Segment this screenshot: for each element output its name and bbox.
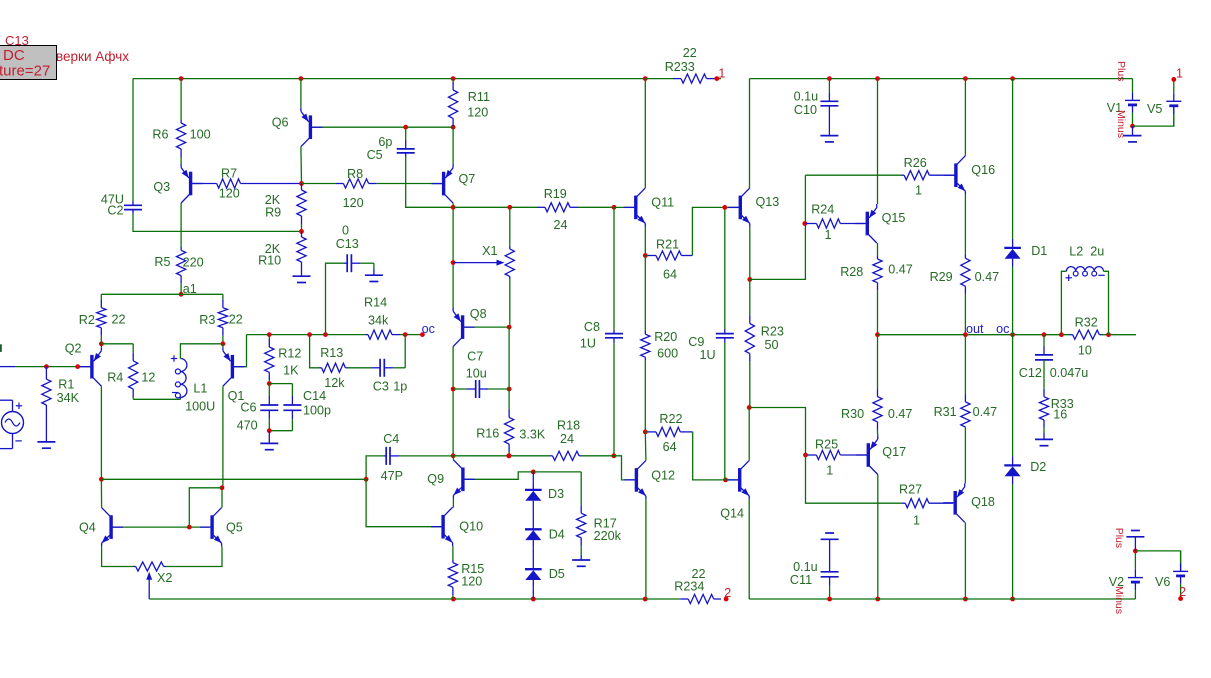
svg-text:Q3: Q3 [153, 180, 170, 194]
svg-text:2: 2 [1179, 585, 1186, 599]
svg-text:R16: R16 [476, 427, 499, 441]
svg-text:220k: 220k [594, 529, 622, 543]
svg-text:2: 2 [724, 586, 731, 600]
svg-text:R23: R23 [761, 324, 784, 338]
svg-text:R6: R6 [152, 127, 168, 141]
svg-text:ture=27: ture=27 [0, 63, 50, 80]
svg-text:C12: C12 [1019, 366, 1042, 380]
svg-text:Q5: Q5 [226, 521, 243, 535]
svg-text:1U: 1U [580, 337, 596, 351]
svg-text:C9: C9 [688, 335, 704, 349]
svg-text:22: 22 [683, 46, 697, 60]
svg-text:V6: V6 [1155, 575, 1170, 589]
svg-text:0.47: 0.47 [975, 270, 1000, 284]
svg-text:Q11: Q11 [651, 196, 674, 210]
svg-text:Q4: Q4 [79, 521, 96, 535]
svg-text:D2: D2 [1030, 460, 1046, 474]
svg-text:R13: R13 [320, 346, 343, 360]
svg-text:Q16: Q16 [971, 163, 995, 177]
svg-text:64: 64 [663, 267, 677, 281]
svg-text:R28: R28 [840, 265, 863, 279]
svg-text:34K: 34K [57, 391, 80, 405]
svg-text:Q6: Q6 [272, 116, 289, 130]
svg-text:24: 24 [560, 432, 574, 446]
svg-text:Minus: Minus [1115, 110, 1127, 138]
svg-text:X2: X2 [157, 571, 172, 585]
svg-text:1: 1 [825, 228, 832, 242]
svg-text:220: 220 [183, 256, 204, 270]
svg-text:50: 50 [765, 338, 779, 352]
svg-text:D4: D4 [549, 528, 565, 542]
svg-text:16: 16 [1053, 407, 1067, 421]
svg-text:C5: C5 [367, 148, 383, 162]
svg-text:12: 12 [141, 370, 155, 384]
svg-text:R22: R22 [659, 412, 682, 426]
svg-text:L1: L1 [193, 382, 207, 396]
svg-text:Q10: Q10 [459, 519, 483, 533]
svg-text:R9: R9 [265, 206, 281, 220]
svg-text:C11: C11 [790, 573, 812, 587]
svg-text:R2: R2 [79, 313, 95, 327]
svg-text:600: 600 [657, 347, 678, 361]
svg-text:0.47: 0.47 [888, 263, 913, 277]
svg-text:22: 22 [229, 313, 243, 327]
svg-text:R14: R14 [364, 296, 387, 310]
svg-text:R12: R12 [278, 347, 301, 361]
svg-text:R4: R4 [107, 370, 123, 384]
svg-text:1p: 1p [393, 379, 407, 393]
svg-text:0.047u: 0.047u [1050, 366, 1089, 380]
svg-text:C6: C6 [240, 400, 256, 414]
svg-text:1: 1 [913, 514, 920, 528]
svg-text:10u: 10u [466, 367, 487, 381]
svg-text:1: 1 [826, 464, 833, 478]
svg-text:R233: R233 [665, 60, 695, 74]
svg-text:L2 2u: L2 2u [1069, 245, 1104, 259]
svg-text:R24: R24 [811, 203, 834, 217]
svg-text:R1: R1 [58, 377, 74, 391]
svg-text:47P: 47P [381, 469, 403, 483]
svg-text:V5: V5 [1147, 102, 1162, 116]
svg-text:1K: 1K [283, 363, 299, 377]
svg-text:24: 24 [554, 218, 568, 232]
svg-text:120: 120 [461, 574, 482, 588]
svg-text:C2: C2 [107, 204, 123, 218]
svg-text:100U: 100U [185, 399, 215, 413]
svg-text:Q2: Q2 [65, 342, 82, 356]
svg-text:R18: R18 [557, 419, 580, 433]
svg-text:6p: 6p [378, 135, 392, 149]
svg-text:D3: D3 [548, 487, 564, 501]
svg-text:oc: oc [422, 322, 435, 336]
svg-text:0.1u: 0.1u [793, 560, 818, 574]
svg-text:верки Афчх: верки Афчх [56, 49, 129, 64]
svg-text:12k: 12k [324, 376, 345, 390]
svg-text:Q8: Q8 [470, 307, 487, 321]
svg-text:34k: 34k [368, 314, 389, 328]
svg-text:470: 470 [237, 418, 258, 432]
svg-text:C3: C3 [373, 379, 389, 393]
svg-text:R7: R7 [221, 167, 237, 181]
svg-text:Q17: Q17 [882, 445, 906, 459]
svg-text:C10: C10 [794, 103, 817, 117]
svg-text:Q7: Q7 [459, 172, 476, 186]
svg-text:oc: oc [996, 322, 1009, 336]
svg-text:Plus: Plus [1113, 528, 1125, 548]
svg-text:Q14: Q14 [720, 507, 744, 521]
svg-text:0: 0 [342, 223, 349, 237]
svg-text:Q18: Q18 [971, 495, 995, 509]
svg-text:0.47: 0.47 [888, 407, 913, 421]
svg-text:22: 22 [112, 313, 126, 327]
svg-text:R5: R5 [154, 255, 170, 269]
svg-text:D1: D1 [1031, 244, 1047, 258]
svg-text:R30: R30 [841, 407, 864, 421]
svg-text:R3: R3 [199, 313, 215, 327]
svg-text:1U: 1U [700, 348, 716, 362]
svg-text:R234: R234 [674, 579, 704, 593]
svg-text:C13: C13 [336, 237, 359, 251]
svg-text:120: 120 [219, 187, 240, 201]
svg-text:0.1u: 0.1u [794, 89, 819, 103]
svg-text:R8: R8 [347, 167, 363, 181]
svg-text:R10: R10 [258, 254, 281, 268]
svg-text:100: 100 [190, 127, 211, 141]
svg-text:120: 120 [467, 105, 488, 119]
svg-text:Q12: Q12 [651, 469, 675, 483]
svg-text:R29: R29 [930, 270, 953, 284]
svg-text:C14: C14 [303, 389, 326, 403]
svg-text:C8: C8 [584, 320, 600, 334]
svg-text:C7: C7 [467, 349, 483, 363]
svg-text:R25: R25 [815, 438, 838, 452]
svg-text:X1: X1 [482, 244, 497, 258]
svg-text:Q15: Q15 [882, 211, 906, 225]
svg-text:R26: R26 [904, 156, 927, 170]
svg-text:0.47: 0.47 [973, 405, 998, 419]
svg-text:120: 120 [343, 196, 364, 210]
svg-text:R11: R11 [468, 90, 490, 104]
svg-text:R27: R27 [899, 483, 922, 497]
svg-text:Q9: Q9 [427, 472, 444, 486]
svg-text:Plus: Plus [1115, 61, 1127, 81]
svg-text:out: out [966, 322, 984, 336]
svg-text:64: 64 [663, 440, 677, 454]
svg-text:DC: DC [3, 47, 25, 64]
svg-text:R32: R32 [1075, 316, 1098, 330]
svg-text:R19: R19 [544, 187, 567, 201]
svg-text:1: 1 [1176, 66, 1183, 80]
svg-text:D5: D5 [549, 567, 565, 581]
svg-text:100p: 100p [303, 404, 331, 418]
svg-text:10: 10 [1078, 344, 1092, 358]
svg-text:1: 1 [915, 184, 922, 198]
svg-text:R20: R20 [654, 330, 677, 344]
svg-text:Q13: Q13 [756, 195, 780, 209]
svg-text:R31: R31 [934, 405, 957, 419]
svg-text:1: 1 [718, 67, 725, 81]
svg-text:3.3K: 3.3K [519, 427, 546, 441]
svg-text:C4: C4 [383, 432, 399, 446]
svg-text:R21: R21 [656, 238, 679, 252]
svg-text:Minus: Minus [1113, 586, 1125, 614]
